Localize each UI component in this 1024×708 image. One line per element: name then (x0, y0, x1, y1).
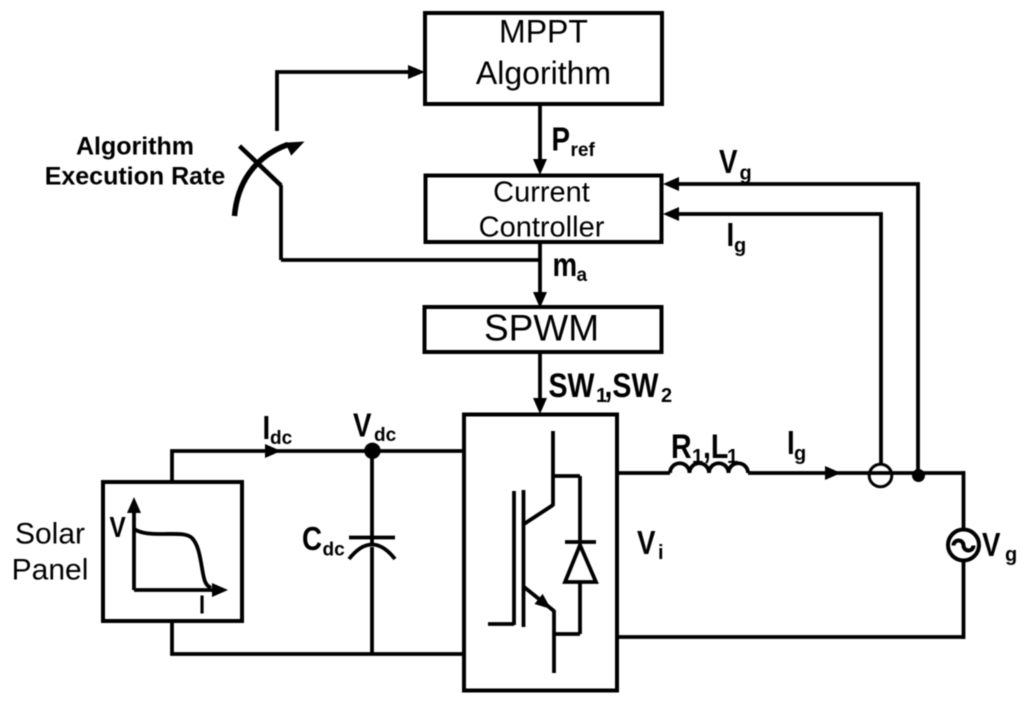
wire bottom left (172, 620, 464, 654)
label V_dc (353, 407, 397, 446)
svg-text:ref: ref (571, 140, 596, 161)
svg-text:g: g (740, 163, 752, 185)
svg-text:Current: Current (493, 177, 590, 209)
svg-text:Algorithm: Algorithm (476, 55, 611, 91)
label m_a (553, 247, 588, 286)
svg-text:V: V (982, 527, 1001, 564)
svg-text:i: i (658, 542, 664, 564)
svg-text:g: g (794, 443, 806, 465)
label Solar Panel (12, 518, 89, 587)
svg-text:V: V (110, 511, 126, 543)
label I_g output (787, 425, 806, 465)
label P_ref (552, 121, 596, 161)
inductor R1,L1 (670, 463, 748, 473)
label C_dc (302, 521, 345, 561)
svg-text:m: m (553, 247, 578, 284)
diode D1 (565, 476, 596, 634)
svg-text:Solar: Solar (15, 518, 85, 551)
IGBT gate lead (488, 622, 514, 626)
wire m_a vertical arrow (533, 242, 547, 308)
box Current Controller (426, 176, 662, 244)
svg-text:C: C (302, 521, 322, 558)
IGBT emitter lead (552, 610, 556, 673)
wire arrow into MPPT (277, 65, 425, 131)
label V_g source (982, 527, 1017, 566)
svg-text:1: 1 (727, 446, 738, 468)
switch bottom terminal (279, 185, 283, 260)
svg-text:dc: dc (374, 425, 397, 446)
wire emitter to diode (554, 632, 580, 636)
label I_dc (263, 410, 293, 449)
svg-text:MPPT: MPPT (499, 14, 588, 50)
svg-text:dc: dc (270, 428, 293, 449)
box SPWM (425, 307, 662, 352)
IGBT emitter diagonal with arrow (524, 587, 555, 614)
label SW1,SW2 (549, 367, 673, 407)
box inverter (464, 415, 617, 691)
svg-text:g: g (734, 235, 746, 257)
label R1,L1 (671, 428, 738, 468)
svg-text:I: I (199, 591, 205, 620)
AC source V_g (948, 530, 979, 561)
svg-text:Panel: Panel (12, 554, 89, 587)
feedback wire V_g (663, 177, 918, 476)
wire I_dc top DC link (172, 444, 464, 482)
node dot (912, 469, 925, 482)
svg-text:g: g (1005, 544, 1017, 566)
IGBT gate bar left (512, 491, 516, 625)
svg-text:1: 1 (692, 446, 703, 468)
box MPPT Algorithm (425, 13, 662, 104)
svg-text:,SW: ,SW (605, 367, 659, 405)
wire m_a horizontal (281, 258, 540, 262)
box solar panel (103, 482, 242, 621)
IGBT gate bar right (522, 490, 526, 627)
solar VI curve (134, 529, 211, 588)
svg-text:Controller: Controller (479, 212, 605, 244)
wire to AC source (962, 471, 966, 530)
IGBT collector diagonal (524, 505, 553, 524)
label Algorithm Execution Rate (45, 133, 226, 191)
svg-text:V: V (637, 525, 656, 562)
svg-text:a: a (577, 265, 588, 286)
wire P_ref arrow (533, 104, 547, 175)
svg-text:Execution Rate: Execution Rate (45, 163, 226, 191)
svg-text:V: V (353, 407, 372, 444)
capacitor C_dc (349, 451, 395, 655)
svg-text:P: P (552, 121, 570, 158)
IGBT collector lead (551, 431, 555, 506)
feedback wire I_g (663, 207, 881, 463)
svg-text:Algorithm: Algorithm (76, 133, 194, 161)
wire collector to diode (553, 474, 580, 478)
solar VI curve axes (127, 497, 228, 597)
sensor circle (869, 464, 892, 487)
svg-text:dc: dc (323, 540, 346, 561)
svg-text:2: 2 (661, 385, 672, 407)
svg-text:,L: ,L (703, 428, 728, 466)
svg-text:V: V (719, 144, 738, 181)
svg-text:SPWM: SPWM (484, 308, 599, 349)
wire SW arrow (533, 352, 547, 414)
wire from source bottom (962, 561, 966, 640)
svg-text:R: R (671, 428, 692, 466)
switch arc arrow (235, 135, 308, 216)
svg-text:SW: SW (549, 367, 595, 405)
label V_i (637, 525, 664, 564)
label I_g feedback (727, 217, 747, 257)
switch blade (240, 146, 282, 186)
label V_g feedback (719, 144, 752, 185)
node V_dc (364, 443, 380, 459)
wire AC output with arrow (617, 466, 964, 480)
wire bottom right (617, 635, 965, 639)
